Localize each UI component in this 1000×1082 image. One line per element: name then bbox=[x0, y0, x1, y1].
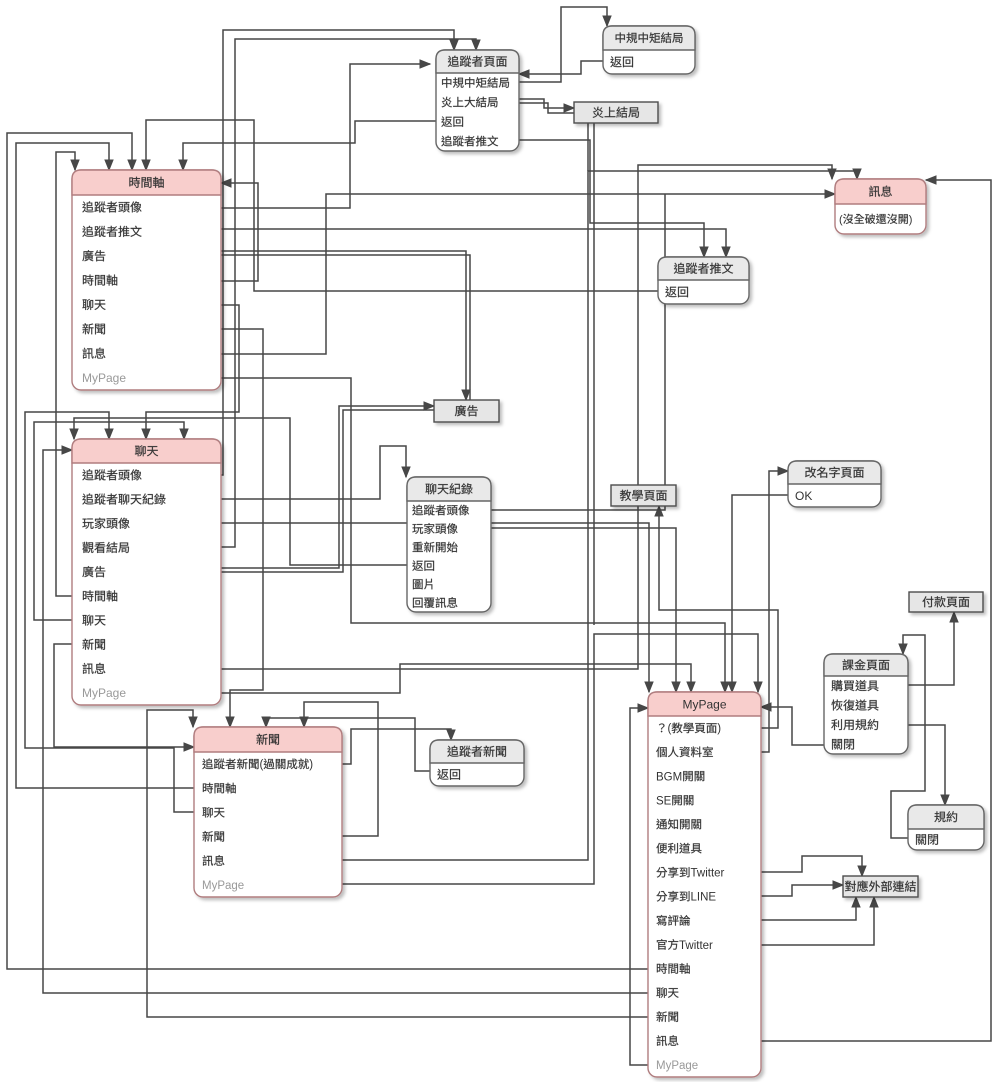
wire 聊天.時間軸→時間軸頁 bbox=[56, 152, 75, 596]
box 訊息 bbox=[835, 179, 926, 234]
svg-text:(: ( bbox=[668, 723, 672, 735]
wire 規約.關閉→課金頁面 bbox=[891, 635, 925, 838]
wire MyPage.時間軸→時間軸頁 bbox=[7, 133, 648, 969]
wire 聊天.訊息→訊息頁 bbox=[221, 165, 832, 669]
wire 聊天.聊天self bbox=[34, 422, 184, 620]
box 中規中矩結局 bbox=[603, 26, 695, 74]
box 對應外部連結 bbox=[843, 876, 918, 897]
svg-text:(: ( bbox=[260, 759, 264, 771]
wire MyPage.分享到Twitter→對應外部連結 bbox=[761, 856, 862, 876]
wire 聊天.玩家頭像→MyPage頁 bbox=[221, 523, 649, 692]
wire MyPage.分享到LINE→對應外部連結 bbox=[761, 885, 843, 896]
svg-text:Twitter: Twitter bbox=[679, 940, 713, 952]
wire 聊天紀錄.玩家頭像→MyPage頁 bbox=[491, 528, 676, 692]
svg-text:MyPage: MyPage bbox=[202, 880, 244, 892]
wire MyPage.聊天→聊天頁 bbox=[43, 450, 648, 993]
wire MyPage.個人資料室→改名字頁面 bbox=[761, 471, 788, 752]
wire 聊天.觀看結局→追蹤者頁面 bbox=[221, 39, 476, 547]
svg-text:LINE: LINE bbox=[691, 892, 717, 904]
wire MyPage.教學→教學頁面 bbox=[659, 506, 778, 728]
wire 時間軸.聊天→聊天頁 bbox=[146, 305, 239, 439]
wire MyPage.訊息→訊息頁 bbox=[761, 180, 991, 1041]
box 改名字頁面 bbox=[788, 461, 881, 507]
wire 追蹤者頁面.追蹤者推文→追蹤者推文頁 bbox=[519, 140, 704, 257]
svg-text:BGM: BGM bbox=[656, 771, 682, 783]
box 追蹤者推文 bbox=[658, 257, 749, 304]
svg-text:): ) bbox=[909, 214, 913, 226]
wire 時間軸.追蹤者頭像→追蹤者頁面 bbox=[221, 64, 430, 208]
wire 時間軸.廣告→廣告頁a bbox=[221, 251, 466, 400]
svg-text:): ) bbox=[717, 723, 721, 735]
wire 時間軸.訊息→訊息頁 bbox=[221, 194, 835, 354]
wire 聊天.追蹤者頭像→追蹤者頁面 bbox=[221, 30, 454, 475]
wire 聊天.廣告→廣告頁a bbox=[221, 406, 434, 568]
wire 新聞.MyPage→MyPage頁 bbox=[342, 634, 758, 884]
wire MyPage.官方Twitter→對應外部連結 bbox=[761, 897, 874, 945]
wire 中規中矩結局.返回→追蹤者頁面 bbox=[519, 61, 603, 74]
wire 時間軸.時間軸self bbox=[221, 183, 258, 281]
wire 追蹤者頁面.炎上大結局→炎上結局a bbox=[519, 99, 574, 108]
wire 時間軸.MyPage→MyPage頁 bbox=[221, 378, 725, 692]
wire 追蹤者推文.返回→時間軸頁 bbox=[146, 120, 658, 291]
wire 聊天.新聞→新聞頁 bbox=[54, 644, 194, 747]
wire 炎上結局stub-a bbox=[587, 123, 589, 171]
wire 新聞.聊天→聊天頁 bbox=[25, 412, 194, 812]
wire 追蹤者頁面.炎上大結局→炎上結局b bbox=[519, 103, 574, 113]
svg-text:SE: SE bbox=[656, 795, 672, 807]
wire MyPage.新聞→新聞頁 bbox=[147, 710, 648, 1017]
box 炎上結局 bbox=[574, 102, 658, 123]
wire 時間軸.廣告→廣告頁b bbox=[221, 255, 470, 400]
wire 炎上結局stub-b bbox=[593, 123, 595, 625]
box 時間軸 bbox=[72, 170, 221, 390]
box 付款頁面 bbox=[909, 592, 983, 612]
svg-text:MyPage: MyPage bbox=[82, 686, 126, 700]
box 追蹤者頁面 bbox=[436, 50, 519, 151]
box 廣告 bbox=[434, 400, 499, 422]
wire 追蹤者頁面.中規中矩結局→中規中矩結局頁 bbox=[519, 7, 607, 82]
svg-text:Twitter: Twitter bbox=[691, 868, 725, 880]
wire 新聞.追蹤者新聞→追蹤者新聞頁 bbox=[342, 729, 451, 764]
wire 課金頁面.利用規約→規約頁 bbox=[908, 725, 945, 805]
svg-text:OK: OK bbox=[795, 489, 812, 503]
wire MyPage.寫評論→對應外部連結 bbox=[761, 897, 856, 920]
wire 課金頁面.關閉→MyPage頁 bbox=[761, 707, 824, 745]
svg-text:(: ( bbox=[839, 214, 843, 226]
wire 課金頁面.購買道具→付款頁面 bbox=[908, 612, 954, 685]
wire 時間軸.新聞→新聞頁 bbox=[221, 329, 263, 727]
box 課金頁面 bbox=[824, 654, 908, 754]
wire 追蹤者頁面.返回→時間軸頁 bbox=[183, 121, 436, 170]
wire 聊天紀錄.返回→聊天頁 bbox=[74, 418, 407, 565]
wire 聊天.廣告→廣告頁b bbox=[221, 410, 434, 572]
wire 追蹤者新聞.返回→新聞頁 bbox=[266, 718, 430, 771]
box 規約 bbox=[908, 805, 984, 850]
wire MyPage.MyPageself bbox=[630, 708, 648, 1065]
box 聊天紀錄 bbox=[407, 477, 491, 612]
wire 改名字頁面.OK→MyPage頁 bbox=[732, 495, 788, 692]
box 追蹤者新聞 bbox=[430, 740, 524, 786]
svg-text:MyPage: MyPage bbox=[656, 1060, 698, 1072]
box MyPage bbox=[648, 692, 761, 1077]
wire 聊天紀錄.追蹤者頭像corridor bbox=[491, 194, 665, 510]
box 教學頁面 bbox=[611, 485, 676, 506]
wire 時間軸.追蹤者推文→追蹤者推文頁 bbox=[221, 229, 726, 257]
svg-text:MyPage: MyPage bbox=[82, 371, 126, 385]
box 新聞 bbox=[194, 727, 342, 897]
wire 聊天.追蹤者聊天紀錄→聊天紀錄頁 bbox=[221, 446, 406, 499]
wire 聊天.MyPage→MyPage頁 bbox=[221, 664, 691, 693]
wire 新聞.時間軸→時間軸頁 bbox=[16, 143, 194, 788]
wire 新聞.新聞self bbox=[304, 702, 378, 836]
svg-text:): ) bbox=[309, 759, 313, 771]
box 聊天 bbox=[72, 439, 221, 705]
svg-text:MyPage: MyPage bbox=[683, 697, 727, 711]
wire 新聞.訊息→訊息頁 bbox=[342, 171, 857, 860]
